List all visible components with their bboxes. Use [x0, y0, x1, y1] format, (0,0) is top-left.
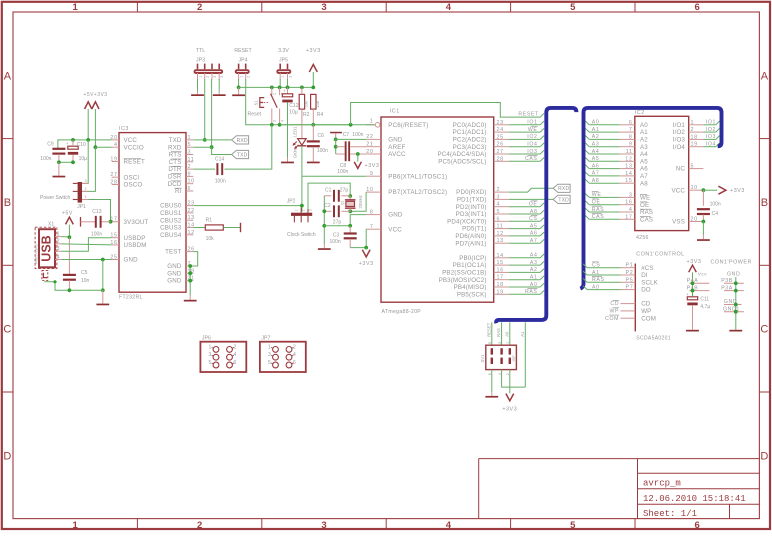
ground under C6 [307, 162, 320, 164]
IC2 pin 10 VCC [689, 189, 704, 191]
svg-text:3: 3 [321, 2, 326, 13]
svg-text:A6: A6 [640, 166, 648, 173]
svg-text:P1: P1 [626, 263, 634, 269]
svg-text:TEST: TEST [165, 249, 181, 256]
wire net A2 from bus to IC2 pin 8 [589, 138, 620, 140]
svg-text:3: 3 [84, 179, 86, 183]
svg-text:PC5(ADC5/SCL): PC5(ADC5/SCL) [438, 158, 486, 165]
svg-text:P2: P2 [626, 270, 634, 276]
IC1 pin 20 AVCC [366, 153, 381, 155]
IC3 pin 1 TXD [186, 139, 193, 141]
svg-text:LED1: LED1 [292, 126, 297, 137]
wire X1 pin3 to USBDP [62, 238, 112, 252]
wire R2 to LED1 [301, 87, 303, 94]
junction C9 bottom [57, 160, 61, 164]
wire net A4 from IC1 pin 14 to bus [509, 257, 540, 259]
svg-text:+3V3: +3V3 [502, 406, 517, 412]
svg-text:C11: C11 [700, 297, 709, 303]
svg-text:24: 24 [497, 127, 504, 133]
IC1 pin 7 VCC [366, 228, 381, 230]
svg-text:14: 14 [625, 171, 632, 177]
svg-text:13: 13 [625, 164, 632, 170]
svg-text:1: 1 [57, 231, 60, 237]
IC3 pin 18 GND [186, 272, 193, 274]
svg-text:C6: C6 [318, 133, 325, 139]
IC1 pin 2 PD0(RXD) [494, 191, 509, 193]
wire net CAS from bus to IC2 pin 17 [589, 218, 620, 220]
svg-text:COM: COM [641, 315, 656, 322]
svg-text:VCC: VCC [124, 137, 138, 144]
wire +5V+3V3 left arrow to VCC rail [87, 109, 89, 139]
svg-text:IO1: IO1 [706, 120, 716, 126]
svg-text:B: B [4, 197, 11, 209]
svg-text:7: 7 [370, 224, 374, 230]
IC2 pin 17 CAS [620, 218, 635, 220]
svg-text:CAS: CAS [640, 216, 653, 223]
svg-text:CD: CD [610, 301, 619, 307]
svg-text:JP4: JP4 [239, 58, 248, 64]
svg-text:27: 27 [110, 172, 117, 178]
svg-text:2: 2 [206, 76, 210, 78]
supply +3V3 arrow below SV1 [506, 394, 514, 401]
junction C3 top [348, 224, 352, 228]
svg-text:OE: OE [592, 200, 601, 206]
svg-text:RAS: RAS [592, 207, 605, 213]
supply +3V3 arrow at IC2 [718, 186, 726, 194]
wire net A6 from bus to IC2 pin 13 [589, 168, 620, 170]
junction shield [53, 280, 56, 283]
capacitor C14 100n [216, 163, 218, 175]
svg-text:CBUS4: CBUS4 [160, 232, 182, 239]
wire PD0 to RXD flag [509, 188, 553, 192]
svg-text:13: 13 [188, 215, 195, 221]
svg-text:Sheet: 1/1: Sheet: 1/1 [643, 509, 697, 519]
IC3 pin 19 RESET [112, 161, 119, 163]
svg-text:A0: A0 [530, 282, 538, 288]
svg-text:4: 4 [293, 352, 296, 358]
svg-text:PC0(ADC0): PC0(ADC0) [453, 122, 487, 129]
svg-text:C3: C3 [333, 233, 340, 239]
flag TXD right [553, 195, 570, 203]
IC2 pin 20 VSS [689, 221, 704, 223]
IC2 pin 15 A8 [620, 182, 635, 184]
svg-text:+3V3: +3V3 [359, 261, 374, 267]
svg-text:12: 12 [497, 231, 504, 237]
junction S1 pin3 reset rail [270, 123, 274, 127]
svg-text:4: 4 [446, 2, 452, 13]
wire IC1 pin10 to crystal bottom node [350, 192, 366, 211]
svg-text:I/O3: I/O3 [673, 137, 686, 144]
svg-text:10: 10 [188, 179, 195, 185]
IC3 pin 20 VCC [112, 139, 119, 141]
svg-text:IO4: IO4 [706, 142, 716, 148]
IC3 pin 17 3V3OUT [112, 221, 119, 223]
svg-text:3: 3 [629, 192, 633, 198]
SV1 pads [491, 348, 493, 354]
wire net CAS from IC1 pin 28 to bus [509, 160, 540, 162]
IC3 pin 26 TEST [186, 251, 193, 253]
svg-text:20: 20 [366, 149, 373, 155]
svg-text:Vcc: Vcc [698, 272, 707, 278]
wire net A1 to CON1 P2 [587, 274, 620, 276]
svg-text:AREF: AREF [388, 144, 405, 151]
wire left arrow continues to JP1 pin3 [82, 140, 88, 184]
svg-text:5: 5 [209, 360, 212, 366]
svg-text:A1: A1 [520, 331, 525, 337]
capacitor C8 100n plates [345, 141, 347, 161]
connector JP5 3.3V header [277, 70, 290, 73]
svg-text:WE: WE [640, 195, 650, 202]
svg-text:PN61729-S: PN61729-S [35, 244, 39, 264]
junction S1 pin2 rail [278, 86, 282, 90]
svg-text:A1: A1 [530, 275, 538, 281]
svg-text:27: 27 [497, 149, 504, 155]
junction GND row [101, 258, 105, 262]
svg-text:6: 6 [695, 2, 700, 13]
wire gnd node horizontal [324, 225, 350, 227]
svg-text:4,7µ: 4,7µ [700, 304, 710, 310]
wire net RAS from IC1 pin 19 to bus [509, 293, 540, 295]
svg-text:3: 3 [188, 150, 192, 156]
wire C14 to reset rail [225, 125, 272, 169]
svg-text:CBUS2: CBUS2 [160, 217, 182, 224]
wire net A7 from IC1 pin 13 to bus [509, 242, 540, 244]
wire AREF row right segment [350, 146, 366, 148]
connector X1 USB PN61729-S [35, 227, 57, 268]
svg-text:P3A: P3A [721, 285, 733, 291]
IC1 pin 25 PC2(ADC2) [494, 138, 509, 140]
wire SV1 pin4 to A1 [502, 370, 526, 388]
svg-text:4: 4 [220, 76, 224, 78]
svg-text:RESET: RESET [234, 48, 252, 54]
junction AREF left [334, 145, 338, 149]
svg-text:USBDP: USBDP [124, 235, 146, 242]
junction X1 pin1 +5V C5 [68, 235, 72, 239]
svg-text:FT232RL: FT232RL [119, 295, 143, 301]
svg-text:A6: A6 [592, 163, 600, 169]
wire JP3 pin4 to ground [218, 79, 220, 91]
svg-text:D: D [760, 450, 768, 462]
IC3 pin 9 DSR [186, 175, 193, 177]
IC1 pin 11 PD5(T1) [494, 228, 509, 230]
IC2 pin 4 RAS [620, 211, 635, 213]
junction R4 / C6 / reset rail [311, 123, 315, 127]
svg-text:Power Switch: Power Switch [40, 195, 71, 201]
junction C12 rail [286, 86, 290, 90]
svg-text:C13: C13 [92, 209, 101, 215]
CON1 pin GND1 [724, 311, 744, 313]
ic IC3 FT232RL box [119, 133, 186, 293]
ground under C11 [686, 330, 699, 332]
svg-text:5: 5 [488, 342, 492, 344]
IC2 pin 9 A3 [620, 146, 635, 148]
wire net A3 from IC1 pin 15 to bus [509, 264, 540, 266]
IC2 pin 8 A2 [620, 138, 635, 140]
svg-text:1: 1 [370, 119, 374, 125]
IC3 pin 15 USBDP [112, 237, 119, 239]
capacitor C6 100n [312, 125, 314, 141]
flag RXD [232, 136, 249, 144]
wire right arrow continues to JP1 pin2 [82, 147, 95, 191]
wire net WE from bus to IC2 pin 3 [589, 196, 620, 198]
svg-text:8: 8 [370, 209, 374, 215]
junction AVCC +3V3 [356, 152, 360, 156]
svg-text:1: 1 [240, 76, 244, 78]
junction bottom rail [101, 288, 105, 292]
ground under C9 C10 [58, 162, 60, 175]
junction S1 pin4 reset rail [278, 123, 282, 127]
wire net A0 to CON1 P7 [587, 289, 620, 291]
svg-text:CBUS1: CBUS1 [160, 210, 182, 217]
svg-text:A4: A4 [530, 253, 538, 259]
wire JP1 pin1 to 3V3OUT [88, 200, 110, 222]
IC1 pin 6 PD4(XCK/T0) [494, 220, 509, 222]
CON1 pin COM [621, 317, 636, 319]
IC3 pin 22 CBUS1 [186, 212, 193, 214]
IC2 pin 5 NC [689, 168, 704, 170]
wire net IO3 from IC2 pin 18 to bus [703, 138, 715, 140]
svg-text:A6: A6 [530, 231, 538, 237]
svg-text:COM: COM [605, 316, 619, 322]
svg-text:18: 18 [691, 134, 698, 140]
svg-text:PD4(XCK/T0): PD4(XCK/T0) [447, 218, 486, 225]
IC3 pin 14 CBUS3 [186, 227, 193, 229]
wire RESET net over IC1 to bus [351, 103, 544, 125]
svg-text:RAS: RAS [525, 289, 538, 295]
CON1 pin P5 SCLK [621, 281, 636, 283]
svg-text:avrcp_m: avrcp_m [643, 478, 681, 488]
svg-text:CON1'POWER: CON1'POWER [711, 260, 752, 266]
IC3 pin 6 RI [186, 190, 193, 192]
svg-text:SV1: SV1 [480, 354, 485, 363]
wire AVCC row right segment [350, 153, 366, 155]
svg-text:A3: A3 [530, 260, 538, 266]
wire gnd pin22 row [336, 138, 366, 140]
wire net A8 from IC1 pin 5 to bus [509, 213, 540, 215]
svg-text:1: 1 [209, 344, 212, 350]
wire JP5 pin2 to top rail [287, 79, 289, 87]
svg-text:C5: C5 [81, 270, 88, 276]
svg-text:PD6(AIN0): PD6(AIN0) [455, 233, 486, 240]
svg-text:1: 1 [295, 209, 299, 211]
IC1 pin 1 PC6(/RESET) [366, 124, 375, 126]
IC3 pin 3 RTS [186, 154, 193, 156]
svg-text:RESET: RESET [486, 322, 491, 336]
junction crystal bottom node [348, 209, 352, 213]
wire net A0 from bus to IC2 pin 6 [589, 124, 620, 126]
IC1 pin 5 PD3(INT1) [494, 213, 509, 215]
IC2 pin 13 A6 [620, 168, 635, 170]
junction reset rail to bus branch [349, 123, 353, 127]
svg-text:10k: 10k [206, 236, 215, 242]
svg-text:C10: C10 [77, 142, 86, 148]
svg-text:16: 16 [497, 267, 504, 273]
wire net A7 from bus to IC2 pin 14 [589, 175, 620, 177]
svg-text:VCCIO: VCCIO [124, 144, 144, 151]
svg-text:A7: A7 [592, 171, 600, 177]
svg-text:100n: 100n [215, 178, 226, 184]
svg-text:23: 23 [497, 120, 504, 126]
svg-text:+: + [283, 88, 286, 93]
wire net A5 from IC1 pin 11 to bus [509, 228, 540, 230]
junction R2 rail [300, 86, 304, 90]
svg-text:6: 6 [695, 520, 700, 531]
svg-text:10: 10 [366, 187, 373, 193]
capacitor C4 100n [702, 190, 704, 206]
svg-text:10µ: 10µ [289, 109, 298, 115]
svg-text:1: 1 [73, 520, 79, 531]
wire net OE from bus to IC2 pin 16 [589, 204, 620, 206]
svg-text:WE: WE [528, 127, 538, 133]
svg-text:Clock Switch: Clock Switch [287, 232, 316, 238]
wire net A2 from IC1 pin 16 to bus [509, 271, 540, 273]
svg-text:2: 2 [84, 187, 86, 191]
svg-text:13: 13 [497, 238, 504, 244]
svg-text:9: 9 [629, 142, 633, 148]
svg-text:1: 1 [273, 93, 277, 95]
svg-text:IO3: IO3 [527, 149, 537, 155]
svg-text:CBUS3: CBUS3 [160, 225, 182, 232]
svg-text:3: 3 [497, 194, 501, 200]
svg-text:S1: S1 [253, 100, 258, 106]
svg-text:RESET: RESET [124, 159, 145, 166]
ground under C12 [287, 158, 289, 162]
ground under IC3 [189, 296, 191, 300]
CON1 pin P3B [724, 282, 744, 284]
junction CBUS0 LED JP2 [300, 204, 304, 208]
svg-text:R1: R1 [206, 218, 213, 224]
svg-text:4: 4 [629, 207, 633, 213]
wire PD1 to TXD flag [509, 198, 553, 200]
svg-text:PB5(SCK): PB5(SCK) [457, 291, 487, 298]
svg-text:IC1: IC1 [390, 109, 400, 115]
wire LED1 cathode down to CBUS0 / JP2 [301, 146, 303, 212]
junction C7 gnd row [334, 138, 338, 142]
svg-text:3: 3 [309, 209, 313, 211]
svg-text:GND: GND [388, 137, 403, 144]
ground under JP3 pin4 [218, 91, 220, 94]
svg-text:IO3: IO3 [706, 134, 716, 140]
svg-text:9: 9 [370, 171, 374, 177]
svg-text:+5V: +5V [62, 210, 73, 216]
svg-text:2: 2 [197, 520, 202, 531]
svg-text:Q1: Q1 [340, 200, 344, 205]
svg-text:A5: A5 [640, 158, 648, 165]
junction S1 pin1 rail [270, 86, 274, 90]
svg-text:6: 6 [188, 186, 192, 192]
wire X1 pin2 to USBDM [62, 244, 112, 245]
IC1 pin 26 PC3(ADC3) [494, 146, 509, 148]
wire XTAL1 from LED column to IC1 pin9 [302, 175, 366, 177]
IC1 pin 27 PC4(ADC4/SDA) [494, 153, 509, 155]
svg-text:C: C [760, 324, 768, 336]
wire net CS from IC1 pin 6 to bus [509, 220, 540, 222]
wire JP2 pin3 up over to crystal node [308, 183, 350, 209]
junction GND pin21 [188, 279, 192, 283]
svg-text:A8: A8 [592, 178, 600, 184]
svg-text:Grün: Grün [292, 148, 297, 158]
svg-text:C4: C4 [712, 211, 719, 217]
wire net IO2 from IC2 pin 2 to bus [703, 131, 715, 133]
svg-text:OSCI: OSCI [124, 174, 140, 181]
svg-text:IO4: IO4 [527, 142, 537, 148]
title block [479, 458, 760, 460]
svg-text:2: 2 [289, 76, 293, 78]
svg-text:21: 21 [366, 142, 373, 148]
junction C5 bottom [68, 288, 72, 292]
IC1 pin 16 PB2(SS/OC1B) [494, 271, 509, 273]
svg-text:CAS: CAS [525, 156, 538, 162]
svg-text:100n: 100n [337, 169, 348, 175]
svg-text:2: 2 [293, 344, 296, 350]
svg-text:PB3(MOSI/OC2): PB3(MOSI/OC2) [439, 277, 487, 284]
ground under SV1 [491, 392, 493, 396]
wire GND row down [102, 260, 104, 291]
connector JP3 TTL header [195, 70, 223, 73]
wire C9 C10 bottoms [59, 161, 73, 163]
supply +3V3 arrow below clock area [365, 248, 367, 250]
IC2 pin 19 I/O4 [689, 146, 704, 148]
wire net A5 from bus to IC2 pin 12 [589, 160, 620, 162]
svg-text:RXD: RXD [168, 144, 182, 151]
svg-text:CAS: CAS [592, 214, 605, 220]
svg-text:5: 5 [268, 360, 271, 366]
svg-text:JP1: JP1 [77, 204, 86, 210]
svg-text:PB1(OC1A): PB1(OC1A) [453, 262, 487, 269]
svg-text:TXD: TXD [558, 197, 569, 203]
svg-text:6: 6 [234, 360, 237, 366]
IC1 pin 17 PB3(MOSI/OC2) [494, 279, 509, 281]
svg-text:2: 2 [197, 2, 202, 13]
junction IC2 VCC [702, 188, 706, 192]
svg-text:CBUS0: CBUS0 [160, 203, 182, 210]
IC1 pin 12 PD6(AIN0) [494, 235, 509, 237]
svg-text:C2: C2 [324, 203, 331, 209]
IC3 pin 7 GND [186, 265, 193, 267]
svg-text:1: 1 [199, 76, 203, 78]
svg-text:GND: GND [167, 263, 182, 270]
wire JP5 pin1 to top rail [279, 79, 281, 87]
wire net IO1 from IC2 pin 1 to bus [703, 124, 715, 126]
svg-text:19: 19 [691, 142, 698, 148]
IC3 pin 4 VCCIO [112, 146, 119, 148]
flag RXD right [553, 184, 570, 192]
svg-text:IC2: IC2 [635, 110, 645, 116]
CON1 pin P2 DI [621, 274, 636, 276]
capacitor C9 100n [52, 148, 65, 150]
svg-text:A: A [761, 70, 769, 82]
svg-text:USBDM: USBDM [124, 242, 147, 249]
bus from SV1 area up over IC1 nets [496, 108, 576, 323]
wire RXD row jog to TXD flag [193, 147, 231, 154]
IC3 pin 10 DCD [186, 183, 193, 185]
ground under JP3 pin1 [197, 91, 199, 94]
junction GND pin18 [188, 271, 192, 275]
IC1 pin 22 GND [366, 138, 381, 140]
IC2 pin 1 I/O1 [689, 124, 704, 126]
svg-text:USB: USB [40, 235, 54, 261]
capacitor C7 gnd bar [330, 132, 342, 134]
svg-text:GND: GND [167, 270, 182, 277]
svg-text:A7: A7 [530, 238, 538, 244]
IC3 pin 16 USBDM [112, 244, 119, 246]
svg-text:PC2(ADC2): PC2(ADC2) [453, 137, 487, 144]
svg-text:100n: 100n [317, 148, 328, 154]
svg-text:10n: 10n [81, 278, 90, 284]
svg-text:100n: 100n [710, 201, 721, 207]
CON1 pin P4B [689, 290, 709, 292]
svg-text:C1: C1 [325, 187, 332, 193]
